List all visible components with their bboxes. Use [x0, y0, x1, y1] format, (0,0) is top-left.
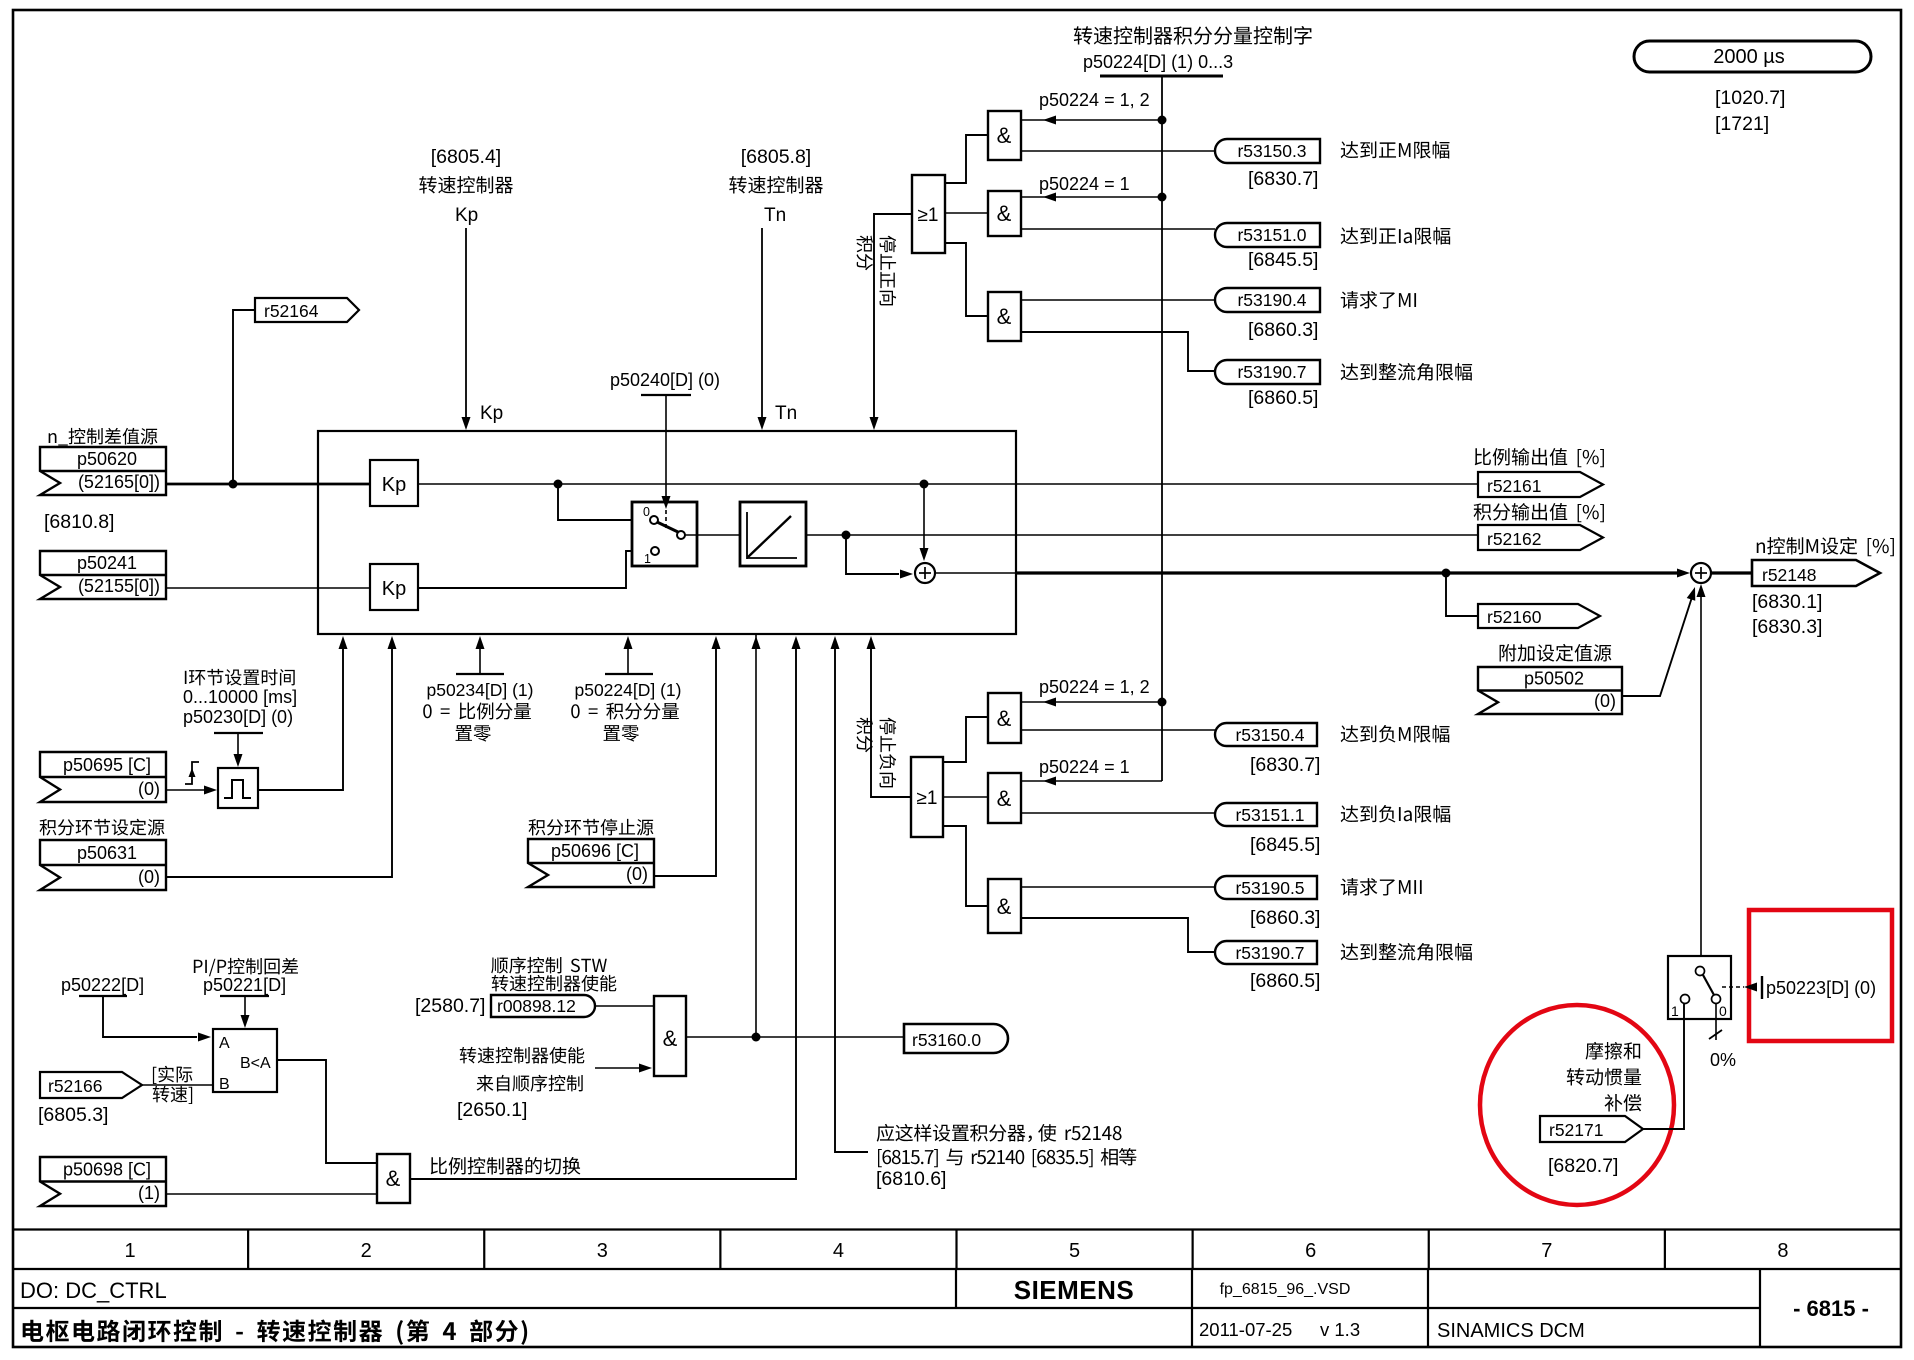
label sequence control STW / speed controller enable [491, 957, 508, 973]
input connector p50241 (52155[0]) [40, 551, 166, 599]
svg-text:&: & [997, 706, 1012, 731]
wire p50224 underline [1100, 75, 1223, 78]
connector flag r52162 [1478, 525, 1603, 550]
scan-time pill 2000 us [1634, 41, 1871, 72]
wire summer to main output (bold) [935, 572, 1016, 574]
svg-text:7: 7 [1541, 1240, 1552, 1262]
svg-text:[1020.7]: [1020.7] [1715, 87, 1785, 109]
svg-text:Tn: Tn [775, 403, 797, 424]
AND gate proportional switchover [377, 1154, 410, 1203]
svg-text:p50631: p50631 [77, 843, 137, 863]
svg-text:Kp: Kp [480, 403, 503, 424]
svg-text:[6830.7]: [6830.7] [1250, 754, 1320, 776]
svg-text:[6860.5]: [6860.5] [1250, 970, 1320, 992]
gain block Kp 1 [370, 460, 418, 506]
OR gate upper [912, 175, 945, 253]
svg-text:≥1: ≥1 [918, 205, 939, 226]
svg-text:r53190.7: r53190.7 [1235, 943, 1304, 963]
svg-text:[6820.7]: [6820.7] [1548, 1155, 1618, 1177]
svg-text:6: 6 [1305, 1240, 1316, 1262]
svg-text:2000 µs: 2000 µs [1713, 46, 1785, 68]
svg-text:p50234[D] (1): p50234[D] (1) [426, 680, 533, 700]
wire branch down to switch contact 0 [558, 484, 650, 520]
OR gate lower [911, 757, 943, 837]
status pill r53151.1 [1215, 803, 1317, 826]
wire p50241 to Kp2 [166, 587, 370, 589]
label reached firing-angle limit lower [1341, 943, 1359, 960]
label actual speed [153, 1067, 157, 1084]
svg-text:0...10000 [ms]: 0...10000 [ms] [183, 687, 297, 707]
note text integrator setting [877, 1124, 894, 1142]
status pill r53190.4 [1215, 288, 1320, 312]
label reached negative M limit [1341, 725, 1359, 742]
input connector p50631 [40, 840, 166, 890]
svg-text:A: A [219, 1035, 230, 1052]
svg-text:[6805.4]: [6805.4] [431, 146, 501, 168]
svg-text:[6830.7]: [6830.7] [1248, 168, 1318, 190]
AND gate upper 3 [988, 292, 1021, 341]
svg-text:(52155[0]): (52155[0]) [78, 576, 160, 596]
svg-text:&: & [386, 1166, 401, 1191]
svg-text:&: & [663, 1026, 678, 1051]
svg-text:B<A: B<A [240, 1055, 271, 1072]
svg-text:p50695 [C]: p50695 [C] [63, 755, 151, 775]
wire integral branch to summer [846, 535, 899, 574]
svg-text:[6810.8]: [6810.8] [44, 511, 114, 533]
label speed-controller integral-component control word [1074, 26, 1092, 44]
AND gate lower 1 [988, 693, 1021, 743]
wire r52166 to comparator B [142, 1084, 213, 1086]
svg-text:Tn: Tn [764, 205, 786, 226]
svg-text:&: & [997, 123, 1012, 148]
wire p50631 riser [166, 640, 392, 877]
label integral set source [40, 819, 57, 835]
svg-text:[6830.3]: [6830.3] [1752, 616, 1822, 638]
svg-text:p50224 = 1, 2: p50224 = 1, 2 [1039, 90, 1150, 110]
svg-text:p50620: p50620 [77, 449, 137, 469]
label additional setpoint source [1500, 644, 1517, 661]
svg-text:[6860.3]: [6860.3] [1250, 907, 1320, 929]
wire proportional branch to summer [923, 484, 925, 549]
p50223 dashed control [1722, 986, 1744, 988]
connector flag r52164 [255, 298, 359, 322]
svg-text:r52148: r52148 [1762, 565, 1817, 585]
svg-text:v 1.3: v 1.3 [1320, 1319, 1360, 1340]
svg-text:p50223[D] (0): p50223[D] (0) [1766, 978, 1876, 998]
summing point internal [915, 563, 935, 583]
svg-text:Kp: Kp [382, 474, 406, 496]
wire Tn arrow into block [761, 228, 763, 424]
svg-text:&: & [997, 894, 1012, 919]
svg-text:0: 0 [1719, 1003, 1727, 1019]
wire p50240 T-bar and arrow to switch [641, 394, 691, 396]
status pill r53190.7 lower [1215, 941, 1317, 964]
svg-text:r52171: r52171 [1549, 1120, 1604, 1140]
switch lever [657, 522, 678, 532]
wire note pointer riser 3 [835, 640, 868, 1152]
svg-text:- 6815 -: - 6815 - [1793, 1296, 1869, 1321]
AND gate sequence enable [654, 996, 686, 1076]
wire bus to AND1 with arrow [1021, 119, 1162, 121]
p50240 arrow and dashed line into switch [662, 496, 671, 509]
svg-text:(52165[0]): (52165[0]) [78, 472, 160, 492]
wire p50620 to Kp1 (bold) [166, 483, 370, 486]
svg-text:&: & [997, 304, 1012, 329]
wire p50230 T-bar arrow into pulse block [214, 732, 263, 734]
label integral stop source [529, 819, 546, 835]
label PI/P control hysteresis p50221[D] [194, 960, 203, 973]
svg-text:≥1: ≥1 [917, 788, 938, 809]
wire r53150.3 to AND1 [1021, 150, 1215, 152]
svg-text:(0): (0) [138, 867, 160, 887]
wire enable arrow to AND [595, 1067, 648, 1069]
svg-text:r52160: r52160 [1487, 607, 1542, 627]
label speed controller enable from sequence control [460, 1047, 477, 1064]
svg-text:p50241: p50241 [77, 553, 137, 573]
label I-component set time p50230 [185, 671, 187, 684]
AND gate upper 1 [988, 111, 1021, 160]
wire r53151.1 to lower AND2 [1021, 812, 1215, 814]
label MII requested [1341, 878, 1358, 895]
label n_control deviation source [49, 433, 57, 443]
svg-text:Kp: Kp [382, 578, 406, 600]
svg-text:[2580.7]: [2580.7] [415, 995, 485, 1017]
title block grid [13, 1228, 1901, 1230]
title block verticals [955, 1269, 957, 1308]
label n-controller M setpoint [%] [1757, 542, 1765, 553]
label integral output value [%] [1474, 503, 1492, 520]
wire bus to lower AND2 with arrow [1021, 780, 1162, 782]
wire branch to r52164 [233, 310, 255, 484]
connector flag r52166 [40, 1072, 142, 1098]
wire r52171 to switch contact 1 [1643, 1004, 1684, 1129]
svg-text:[6805.8]: [6805.8] [741, 146, 811, 168]
connector flag r52160 [1478, 604, 1600, 628]
AND gate lower 2 [988, 773, 1021, 823]
gain block Kp 2 [370, 564, 418, 610]
status pill r53150.3 [1215, 139, 1320, 163]
wire p50234 T-bar riser [456, 673, 504, 675]
wire p50224 T-bar riser [605, 673, 653, 675]
svg-text:p50240[D] (0): p50240[D] (0) [610, 370, 720, 390]
svg-text:p50502: p50502 [1524, 669, 1584, 689]
input connector p50696 [C] [528, 839, 654, 887]
edge-trigger symbol [185, 762, 199, 784]
status pill r53190.7 upper [1215, 360, 1320, 384]
svg-text:[6830.1]: [6830.1] [1752, 591, 1822, 613]
svg-text:4: 4 [833, 1240, 844, 1262]
svg-text:[6845.5]: [6845.5] [1248, 249, 1318, 271]
svg-text:B: B [219, 1076, 230, 1093]
svg-text:p50224[D] (1): p50224[D] (1) [574, 680, 681, 700]
svg-text:r00898.12: r00898.12 [497, 996, 576, 1016]
svg-text:[6860.3]: [6860.3] [1248, 319, 1318, 341]
status pill r53150.4 [1215, 723, 1317, 746]
wire friction-switch riser to summer [1700, 590, 1702, 966]
svg-text:p50221[D]: p50221[D] [203, 975, 286, 995]
svg-text:[1721]: [1721] [1715, 113, 1769, 135]
wire switch to integrator [685, 534, 740, 536]
svg-text:(1): (1) [138, 1183, 160, 1203]
wire r53190.4 to AND3 [1021, 299, 1215, 301]
svg-text:r53160.0: r53160.0 [912, 1030, 981, 1050]
connector flag r52161 [1478, 472, 1603, 497]
svg-text:[6845.5]: [6845.5] [1250, 834, 1320, 856]
svg-text:p50224[D] (1) 0...3: p50224[D] (1) 0...3 [1083, 52, 1233, 72]
svg-text:[6805.3]: [6805.3] [38, 1104, 108, 1126]
svg-text:1: 1 [1671, 1003, 1679, 1019]
PI controller block [318, 431, 1016, 634]
wire r53190.5 to lower AND3 [1021, 886, 1215, 888]
pulse shaper block [218, 768, 258, 808]
wire Kp arrow into block [465, 228, 467, 424]
svg-text:[6860.5]: [6860.5] [1248, 387, 1318, 409]
P/PI selector switch box [632, 502, 697, 566]
wire p50502 diagonal to summer [1622, 591, 1694, 696]
wire p50698 to AND [166, 1193, 377, 1195]
wire bus to AND2 with arrow [1021, 196, 1162, 198]
wire AND2 out to OR [945, 212, 988, 214]
integrator block with limiting [740, 502, 806, 566]
svg-text:p50698 [C]: p50698 [C] [63, 1160, 151, 1180]
svg-text:Kp: Kp [455, 205, 478, 226]
label proportional output value [%] [1475, 448, 1491, 465]
svg-text:r52162: r52162 [1487, 529, 1542, 549]
wire r53150.4 to lower AND1 [1021, 729, 1215, 731]
wire enable riser 1 [755, 634, 757, 1037]
red highlight ellipse [1480, 1005, 1674, 1205]
wire summer to r52148 (bold) [1711, 571, 1752, 574]
input connector p50502 [1478, 667, 1622, 714]
svg-text:r53151.0: r53151.0 [1237, 225, 1306, 245]
label stop positive integration (rotated) [857, 236, 897, 306]
label reached positive Ia limit [1341, 227, 1359, 244]
wire branch to r52160 [1446, 573, 1478, 616]
svg-text:p50224 = 1: p50224 = 1 [1039, 757, 1130, 777]
sheet title armature closed-loop control - speed controller (part 4) [23, 1320, 44, 1342]
wire p50696 riser [654, 640, 716, 876]
wire lower AND3 out to OR [943, 826, 988, 906]
svg-text:DO: DC_CTRL: DO: DC_CTRL [20, 1278, 167, 1303]
wire p50221 T-bar arrow [220, 995, 269, 997]
wire r53190.7 to AND3 [1021, 332, 1215, 371]
source pill r00898.12 [491, 995, 595, 1017]
svg-text:&: & [997, 201, 1012, 226]
wire OR upper output / stop positive integration riser [874, 214, 912, 426]
label reached negative Ia limit [1341, 805, 1359, 822]
svg-text:r53190.7: r53190.7 [1237, 362, 1306, 382]
label MI requested [1341, 291, 1358, 308]
svg-text:fp_6815_96_.VSD: fp_6815_96_.VSD [1220, 1281, 1351, 1298]
wire r53151.0 to AND2 [1021, 228, 1215, 230]
svg-text:(0): (0) [138, 779, 160, 799]
wire r00898.12 to AND [595, 1005, 654, 1007]
svg-text:r52166: r52166 [48, 1076, 103, 1096]
friction/inertia selector switch [1668, 956, 1731, 1019]
svg-text:p50222[D]: p50222[D] [61, 975, 144, 995]
wire AND out riser 2 [410, 640, 796, 1179]
connector flag r52148 [1752, 560, 1880, 586]
svg-text:(0): (0) [626, 864, 648, 884]
svg-text:0: 0 [643, 505, 650, 519]
svg-text:3: 3 [597, 1240, 608, 1262]
AND gate upper 2 [988, 191, 1021, 236]
svg-text:[6810.6]: [6810.6] [876, 1168, 946, 1190]
input connector p50695 [C] [40, 752, 166, 802]
svg-text:8: 8 [1777, 1240, 1788, 1262]
svg-text:&: & [997, 786, 1012, 811]
svg-text:SINAMICS DCM: SINAMICS DCM [1437, 1320, 1585, 1342]
label proportional controller switchover [431, 1157, 447, 1174]
svg-text:r52164: r52164 [264, 301, 319, 321]
svg-text:2011-07-25: 2011-07-25 [1199, 1319, 1292, 1340]
main summing point [1691, 563, 1711, 583]
wire 0% stub [1715, 1003, 1717, 1040]
wire r53190.7 to lower AND3 [1021, 918, 1215, 952]
wire p50222 T-bar to comparator A [79, 995, 127, 997]
input connector p50620 (52165[0]) [40, 447, 166, 495]
svg-text:p50224 = 1, 2: p50224 = 1, 2 [1039, 677, 1150, 697]
svg-text:r53150.4: r53150.4 [1235, 725, 1304, 745]
wire integrator output to r52162 [806, 534, 1478, 536]
svg-text:5: 5 [1069, 1240, 1080, 1262]
svg-text:r53151.1: r53151.1 [1235, 805, 1304, 825]
comparator block B<A [213, 1029, 277, 1092]
input connector p50698 [C] [40, 1157, 166, 1206]
status pill r53151.0 [1215, 223, 1320, 247]
wire comparator out to AND [277, 1060, 377, 1163]
wire AND out to r53160.0 [686, 1036, 904, 1038]
svg-text:r52161: r52161 [1487, 476, 1542, 496]
label reached firing-angle limit upper [1341, 363, 1359, 380]
wire proportional line Kp1 to r52161 [418, 483, 1478, 485]
wire OR lower output / stop negative integration riser [871, 640, 911, 797]
svg-text:[2650.1]: [2650.1] [457, 1099, 527, 1121]
svg-text:p50230[D] (0): p50230[D] (0) [183, 707, 293, 727]
red highlight rectangle [1749, 910, 1892, 1041]
svg-text:r53150.3: r53150.3 [1237, 141, 1306, 161]
wire lower AND2 out to OR [943, 796, 988, 798]
svg-text:p50224 = 1: p50224 = 1 [1039, 174, 1130, 194]
wire Kp2 to switch contact 1 [418, 551, 651, 588]
svg-text:r53190.4: r53190.4 [1237, 290, 1306, 310]
wire AND1 out to OR [945, 135, 988, 183]
wire bus to lower AND1 with arrow [1021, 701, 1162, 703]
wire p50224 control bus vertical [1161, 76, 1163, 781]
svg-text:1: 1 [644, 552, 651, 566]
wire AND3 out to OR [945, 243, 988, 316]
svg-text:1: 1 [124, 1240, 135, 1262]
wire p50695 to pulse shaper [166, 789, 205, 791]
wire pulse shaper output riser [258, 640, 343, 790]
svg-text:(0): (0) [1594, 691, 1616, 711]
svg-text:0%: 0% [1710, 1050, 1736, 1070]
svg-text:p50696 [C]: p50696 [C] [551, 841, 639, 861]
label stop negative integration (rotated) [857, 718, 897, 788]
wire lower AND1 out to OR [943, 717, 988, 762]
svg-text:2: 2 [361, 1240, 372, 1262]
connector flag r52171 [1540, 1116, 1643, 1142]
AND gate lower 3 [988, 879, 1021, 933]
label reached positive M limit [1341, 141, 1359, 158]
switch lever friction [1703, 975, 1714, 995]
svg-text:r53190.5: r53190.5 [1235, 878, 1304, 898]
status pill r53190.5 [1215, 876, 1317, 899]
svg-text:SIEMENS: SIEMENS [1014, 1275, 1135, 1305]
label friction and moment of inertia compensation [1586, 1042, 1604, 1060]
status pill r53160.0 [904, 1024, 1008, 1053]
